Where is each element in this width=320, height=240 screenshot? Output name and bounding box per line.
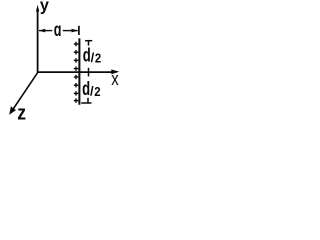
svg-text:x: x [111,69,118,89]
plus charge 3 [74,58,79,62]
plus charge 7 [74,91,79,95]
svg-text:2: 2 [95,50,101,65]
svg-text:2: 2 [94,84,100,99]
plus charge 4 [74,66,79,70]
svg-text:ɑ: ɑ [54,20,62,41]
svg-text:d: d [83,45,91,67]
y-axis [36,5,39,73]
plus charge 2 [74,50,79,54]
plus charge 1 [74,42,79,46]
dimension a: right segment with arrowhead pointing right at tick [63,29,78,33]
plus charge 8 [74,98,79,102]
d/2 dimension middle tick on x-axis [88,68,90,77]
plus charge 6 [74,83,79,87]
z-axis [9,72,38,115]
x-axis [37,69,119,74]
svg-text:d: d [82,78,90,100]
plus charge 5 [74,75,79,79]
upper label d/2 [83,45,102,67]
d/2 dimension top tick [85,41,92,46]
lower label d/2 [82,78,101,100]
dimension a: left segment with arrowhead pointing left at y-axis [39,29,53,33]
svg-text:z: z [17,102,26,125]
dimension a: end tick above line charge [78,26,80,35]
svg-text:y: y [40,0,50,15]
d/2 dimension bottom tick [81,98,91,103]
line charge (vertical charged rod at x = a) [78,38,80,104]
